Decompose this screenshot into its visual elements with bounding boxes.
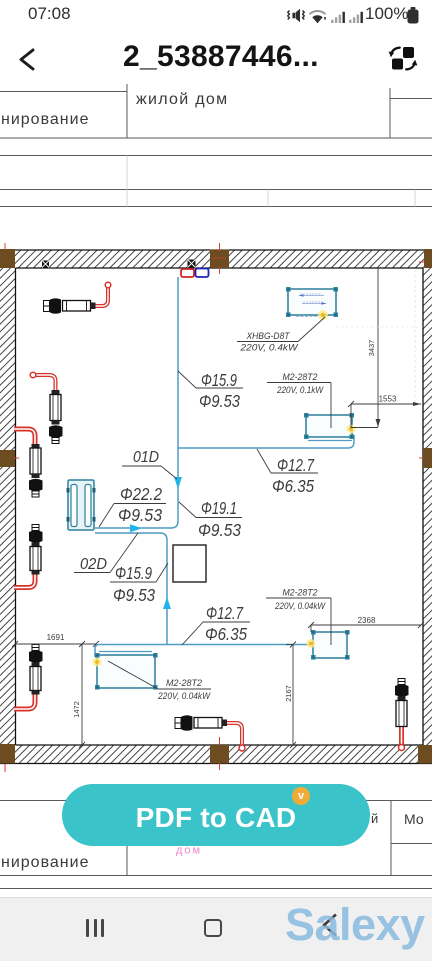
svg-text:Φ6.35: Φ6.35	[205, 624, 247, 644]
svg-text:жилой дом: жилой дом	[136, 91, 228, 108]
svg-text:220V, 0.04kW: 220V, 0.04kW	[274, 601, 326, 611]
svg-text:Φ15.9: Φ15.9	[115, 563, 152, 583]
svg-text:Φ12.7: Φ12.7	[277, 455, 315, 475]
svg-text:Φ19.1: Φ19.1	[201, 498, 237, 518]
svg-text:Φ9.53: Φ9.53	[199, 391, 240, 411]
svg-text:3437: 3437	[367, 340, 376, 357]
svg-text:1553: 1553	[379, 395, 397, 404]
svg-text:M2-28T2: M2-28T2	[283, 588, 318, 598]
svg-text:M2-28T2: M2-28T2	[283, 372, 318, 382]
svg-text:2167: 2167	[284, 685, 293, 702]
svg-text:2368: 2368	[358, 616, 376, 625]
svg-text:дом: дом	[176, 845, 202, 857]
svg-text:нирование: нирование	[1, 111, 89, 128]
svg-text:1691: 1691	[47, 633, 65, 642]
svg-text:220V, 0.04kW: 220V, 0.04kW	[157, 691, 211, 701]
svg-text:M2-28T2: M2-28T2	[166, 678, 202, 688]
svg-text:нирование: нирование	[1, 854, 89, 871]
svg-text:XHBG-D8T: XHBG-D8T	[246, 331, 291, 341]
svg-text:220V, 0.4kW: 220V, 0.4kW	[239, 343, 299, 353]
svg-text:й: й	[371, 811, 378, 826]
svg-text:Φ6.35: Φ6.35	[272, 476, 314, 496]
svg-text:02D: 02D	[80, 556, 107, 573]
svg-text:1472: 1472	[72, 701, 81, 718]
svg-text:Мо: Мо	[404, 811, 424, 827]
svg-text:Φ12.7: Φ12.7	[206, 603, 244, 623]
svg-text:Φ9.53: Φ9.53	[118, 505, 162, 525]
svg-text:Φ22.2: Φ22.2	[120, 484, 162, 504]
svg-text:01D: 01D	[133, 449, 159, 466]
svg-text:220V, 0.1kW: 220V, 0.1kW	[276, 385, 324, 395]
svg-text:Φ9.53: Φ9.53	[198, 520, 241, 540]
svg-text:Φ9.53: Φ9.53	[113, 585, 155, 605]
svg-text:Φ15.9: Φ15.9	[201, 370, 237, 390]
